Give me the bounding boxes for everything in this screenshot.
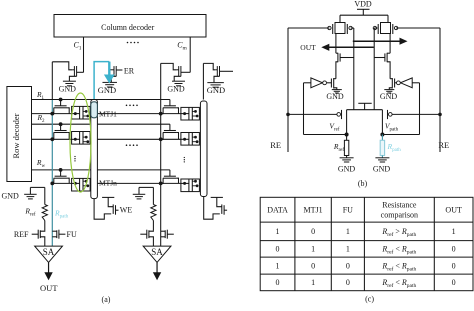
- svg-text:Resistance: Resistance: [382, 201, 417, 210]
- svg-text:OUT: OUT: [300, 43, 316, 52]
- svg-text:Row decoder: Row decoder: [11, 113, 21, 158]
- svg-text:0: 0: [276, 278, 280, 287]
- svg-text:1: 1: [276, 227, 280, 236]
- svg-text:0: 0: [276, 245, 280, 254]
- svg-text:GND: GND: [326, 92, 344, 101]
- svg-text:1: 1: [311, 245, 315, 254]
- svg-text:REF: REF: [14, 230, 29, 239]
- svg-text:GND: GND: [338, 165, 356, 174]
- svg-text:RE: RE: [438, 140, 449, 150]
- svg-text:SA: SA: [151, 247, 163, 257]
- svg-text:OUT: OUT: [40, 283, 58, 293]
- svg-text:MTJn: MTJn: [99, 179, 117, 188]
- svg-text:0: 0: [346, 278, 350, 287]
- svg-text:MTJ1: MTJ1: [304, 206, 323, 215]
- svg-text:MTJ1: MTJ1: [99, 109, 117, 118]
- svg-text:VDD: VDD: [354, 0, 372, 8]
- svg-text:0: 0: [452, 261, 456, 270]
- svg-text:(b): (b): [358, 179, 368, 188]
- svg-text:OUT: OUT: [445, 206, 462, 215]
- svg-text:1: 1: [346, 227, 350, 236]
- svg-text:(c): (c): [365, 294, 374, 303]
- svg-text:comparison: comparison: [381, 210, 418, 219]
- svg-text:SA: SA: [43, 247, 55, 257]
- svg-text:(a): (a): [102, 295, 111, 304]
- svg-text:WE: WE: [120, 206, 133, 215]
- svg-text:FU: FU: [67, 230, 77, 239]
- svg-text:GND: GND: [207, 85, 225, 95]
- svg-text:1: 1: [276, 261, 280, 270]
- svg-text:0: 0: [452, 245, 456, 254]
- svg-text:0: 0: [346, 261, 350, 270]
- svg-text:GND: GND: [373, 165, 391, 174]
- svg-text:FU: FU: [343, 206, 353, 215]
- svg-text:RE: RE: [270, 140, 281, 150]
- svg-text:GND: GND: [380, 92, 398, 101]
- svg-text:0: 0: [311, 261, 315, 270]
- svg-text:GND: GND: [2, 191, 20, 200]
- svg-text:1: 1: [452, 227, 456, 236]
- svg-text:1: 1: [346, 245, 350, 254]
- svg-text:GND: GND: [59, 85, 77, 94]
- svg-text:ER: ER: [124, 66, 135, 75]
- svg-text:GND: GND: [98, 85, 116, 95]
- svg-text:DATA: DATA: [267, 206, 288, 215]
- svg-text:0: 0: [311, 227, 315, 236]
- svg-text:Column decoder: Column decoder: [101, 23, 154, 32]
- svg-text:0: 0: [452, 278, 456, 287]
- svg-text:GND: GND: [167, 85, 185, 94]
- svg-text:1: 1: [311, 278, 315, 287]
